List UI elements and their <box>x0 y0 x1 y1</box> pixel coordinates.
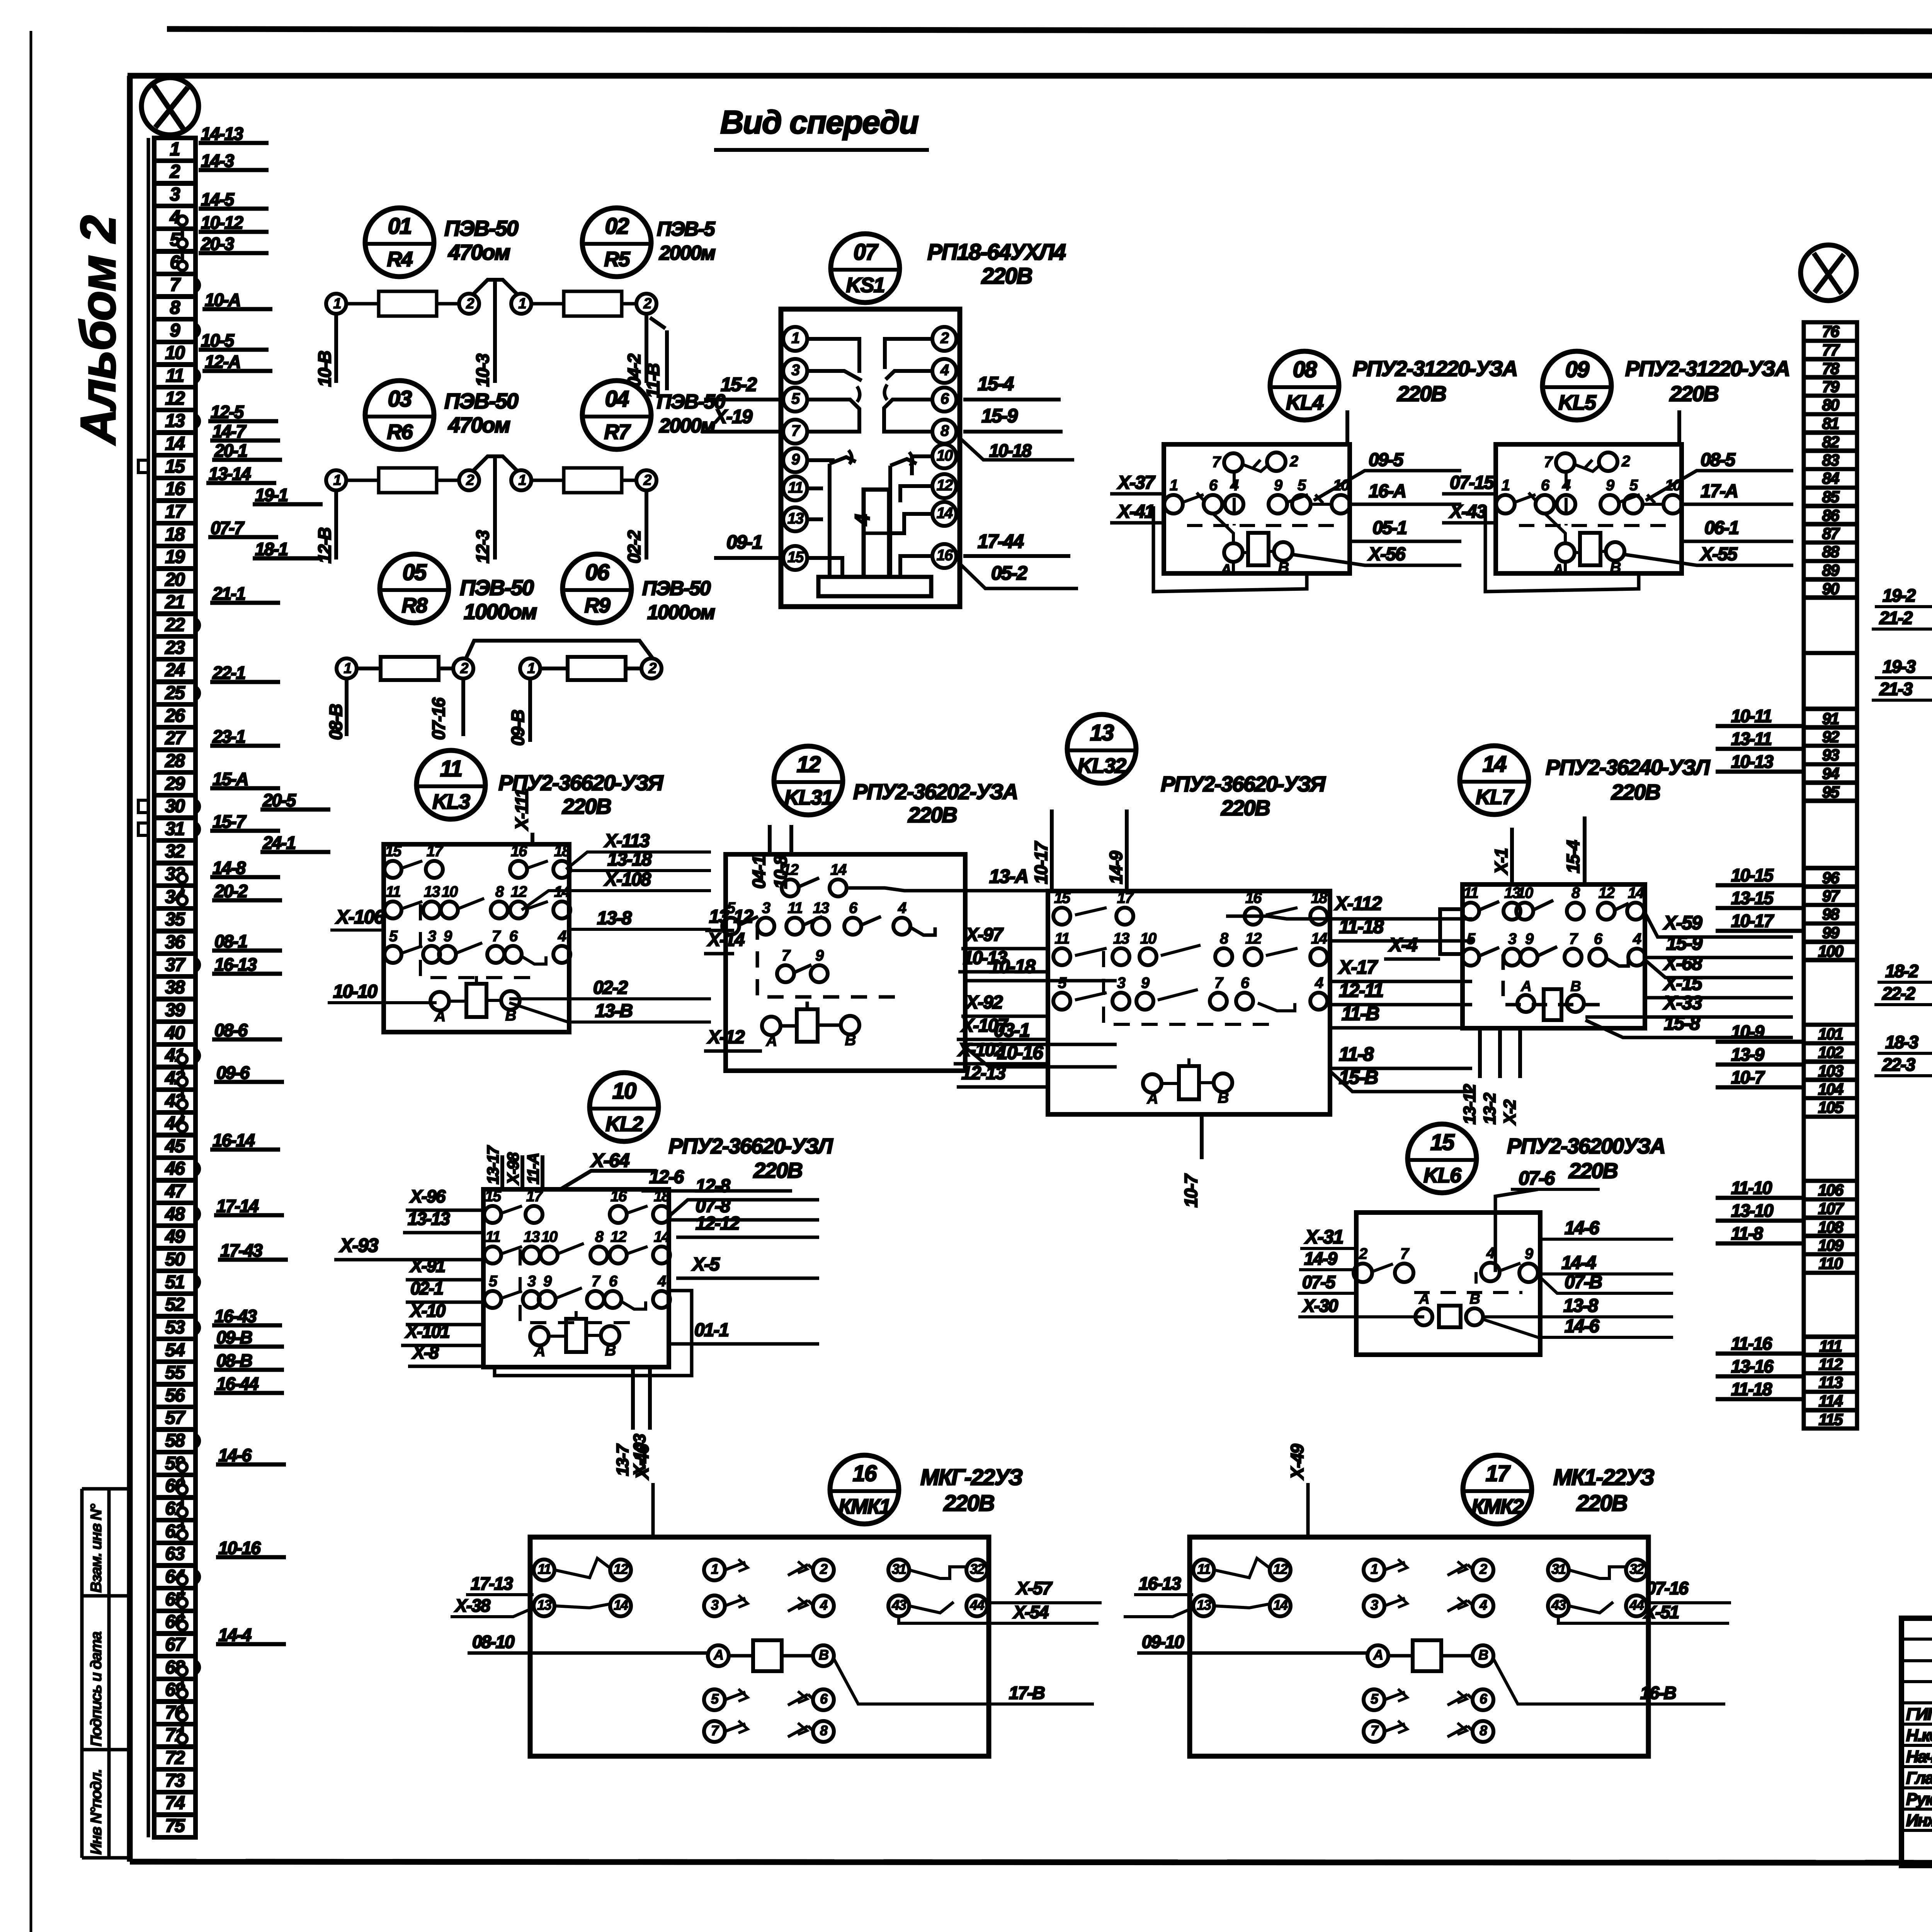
svg-text:X-64: X-64 <box>590 1150 629 1171</box>
svg-text:10-7: 10-7 <box>1181 1173 1201 1207</box>
svg-text:5: 5 <box>1629 477 1638 494</box>
svg-text:5: 5 <box>791 390 800 407</box>
svg-text:13: 13 <box>813 900 829 917</box>
svg-text:21: 21 <box>165 592 184 612</box>
svg-text:11: 11 <box>788 479 803 496</box>
svg-text:5: 5 <box>389 928 398 945</box>
svg-text:01: 01 <box>388 214 412 239</box>
svg-text:10-10: 10-10 <box>333 981 378 1002</box>
svg-text:ГИП: ГИП <box>1906 1705 1932 1724</box>
svg-text:10-А: 10-А <box>205 290 240 310</box>
svg-text:18: 18 <box>165 524 185 545</box>
svg-text:11-А: 11-А <box>524 1153 542 1184</box>
svg-text:16: 16 <box>1245 889 1262 906</box>
svg-text:11: 11 <box>1463 884 1478 901</box>
svg-text:А: А <box>1552 561 1563 578</box>
svg-text:18-2: 18-2 <box>1885 961 1918 981</box>
svg-text:KL7: KL7 <box>1476 786 1515 809</box>
svg-text:6: 6 <box>849 900 858 917</box>
svg-text:14-6: 14-6 <box>218 1445 252 1465</box>
terminal strip X left <box>147 138 150 1837</box>
svg-text:13-8: 13-8 <box>1563 1296 1598 1316</box>
relay KL3 dashed bus <box>420 904 534 978</box>
svg-text:3: 3 <box>170 184 180 205</box>
relay KL6 coil <box>1439 1306 1461 1327</box>
svg-text:А: А <box>766 1032 777 1049</box>
svg-text:15-4: 15-4 <box>978 373 1014 395</box>
svg-text:А: А <box>1418 1291 1429 1307</box>
relay KL7 pins row 2 <box>1462 949 1479 966</box>
svg-text:КМК2: КМК2 <box>1471 1495 1524 1518</box>
relay KL31 id circle 12 <box>774 746 843 815</box>
svg-text:7: 7 <box>711 1723 719 1738</box>
contactor KMK1 body <box>530 1537 989 1756</box>
relay KL2 coil <box>566 1319 586 1352</box>
svg-text:X-46: X-46 <box>632 1444 652 1480</box>
svg-text:X-57: X-57 <box>1015 1578 1053 1598</box>
svg-text:21-2: 21-2 <box>1879 608 1913 628</box>
svg-text:14-4: 14-4 <box>1561 1253 1596 1273</box>
svg-text:KL32: KL32 <box>1078 754 1126 777</box>
svg-text:1: 1 <box>527 660 535 677</box>
svg-text:X-91: X-91 <box>409 1256 445 1276</box>
svg-text:17-В: 17-В <box>1009 1683 1044 1703</box>
svg-text:12-8: 12-8 <box>696 1176 730 1196</box>
svg-text:18: 18 <box>1311 889 1328 906</box>
svg-text:X-15: X-15 <box>1663 973 1703 994</box>
svg-text:58: 58 <box>165 1430 185 1451</box>
svg-text:21-1: 21-1 <box>212 583 245 604</box>
svg-text:6: 6 <box>1594 930 1603 947</box>
relay KL5 body <box>1496 444 1682 573</box>
svg-text:X-41: X-41 <box>1117 502 1154 522</box>
svg-text:14-6: 14-6 <box>1565 1316 1599 1337</box>
resistor R6 id circle 03 <box>365 381 434 449</box>
svg-text:108: 108 <box>1818 1218 1844 1236</box>
svg-text:16-13: 16-13 <box>214 954 257 975</box>
svg-text:114: 114 <box>1819 1392 1843 1410</box>
svg-text:7: 7 <box>1400 1245 1410 1262</box>
svg-text:83: 83 <box>1822 451 1839 469</box>
svg-text:13-14: 13-14 <box>209 464 251 484</box>
svg-text:23: 23 <box>165 638 185 658</box>
svg-text:KL5: KL5 <box>1558 391 1597 414</box>
svg-text:R5: R5 <box>604 248 630 271</box>
svg-text:22-3: 22-3 <box>1882 1054 1915 1075</box>
relay KL4 coil <box>1248 533 1269 565</box>
relay KL32 top stubs <box>1050 810 1054 891</box>
relay KL2 stub X-64 <box>560 1171 657 1189</box>
resistor R5 id circle 02 <box>582 208 651 277</box>
svg-text:7: 7 <box>492 928 501 945</box>
svg-text:R7: R7 <box>604 420 631 444</box>
relay KL32 dashed bus <box>1104 951 1277 1024</box>
svg-text:13-12: 13-12 <box>1460 1084 1479 1124</box>
svg-text:09-В: 09-В <box>508 710 528 746</box>
contactor KMK2 id circle 17 <box>1463 1455 1532 1524</box>
relay KL2 pins middle row <box>484 1247 501 1264</box>
svg-text:13-В: 13-В <box>595 1001 632 1021</box>
svg-text:55: 55 <box>165 1362 185 1383</box>
svg-text:2: 2 <box>1621 453 1630 470</box>
svg-text:24-1: 24-1 <box>262 833 295 853</box>
svg-text:07-В: 07-В <box>1565 1272 1602 1293</box>
svg-text:10: 10 <box>442 883 458 900</box>
svg-text:08-В: 08-В <box>326 704 346 740</box>
svg-text:6: 6 <box>940 390 949 407</box>
contactor KMK1 coil <box>708 1645 729 1666</box>
relay KL3 id circle 11 <box>417 750 485 819</box>
jumper links left strip <box>181 221 184 266</box>
contactor KMK2 pins group 31 32 43 44 <box>1548 1560 1569 1580</box>
svg-text:11-18: 11-18 <box>1339 916 1384 937</box>
svg-text:X-2: X-2 <box>1500 1099 1519 1126</box>
svg-text:47: 47 <box>165 1181 186 1202</box>
svg-text:14-8: 14-8 <box>213 858 246 878</box>
relay KL7 entry box <box>1440 909 1463 954</box>
svg-text:77: 77 <box>1822 341 1840 359</box>
svg-text:04-1: 04-1 <box>749 856 769 889</box>
relay KL5 outer loop wire <box>1564 562 1567 572</box>
svg-text:12-11: 12-11 <box>1339 980 1383 1001</box>
svg-text:09-В: 09-В <box>216 1327 252 1347</box>
svg-text:470ом: 470ом <box>448 240 510 264</box>
svg-text:99: 99 <box>1822 923 1840 942</box>
svg-text:22: 22 <box>165 615 185 635</box>
svg-text:6: 6 <box>1241 975 1250 992</box>
frame top line A <box>167 29 1932 32</box>
svg-text:21-3: 21-3 <box>1879 679 1913 699</box>
svg-text:X-19: X-19 <box>713 406 753 427</box>
svg-text:220В: 220В <box>1611 780 1660 804</box>
svg-text:3: 3 <box>527 1273 536 1290</box>
svg-text:07: 07 <box>854 240 879 265</box>
svg-text:В: В <box>819 1647 828 1663</box>
svg-text:09-6: 09-6 <box>216 1063 250 1083</box>
svg-text:08-10: 08-10 <box>472 1632 515 1652</box>
svg-text:А: А <box>1147 1090 1158 1107</box>
svg-text:78: 78 <box>1822 359 1840 378</box>
svg-text:112: 112 <box>1819 1355 1843 1373</box>
svg-text:X-68: X-68 <box>1663 952 1702 974</box>
svg-text:1: 1 <box>1371 1561 1378 1577</box>
svg-text:14: 14 <box>1273 1597 1288 1613</box>
svg-text:1: 1 <box>518 296 526 312</box>
svg-text:12-6: 12-6 <box>649 1167 684 1187</box>
svg-text:14-5: 14-5 <box>201 189 235 209</box>
svg-text:17-14: 17-14 <box>216 1196 259 1216</box>
svg-text:1: 1 <box>333 296 341 312</box>
svg-text:9: 9 <box>1525 1245 1534 1262</box>
svg-text:15: 15 <box>385 843 402 860</box>
contactor KMK1 pins group 11-14 <box>534 1560 554 1580</box>
svg-text:6: 6 <box>1541 477 1550 494</box>
svg-text:07-15: 07-15 <box>1450 473 1495 493</box>
svg-text:Глав.спец: Глав.спец <box>1906 1769 1932 1787</box>
svg-text:17-А: 17-А <box>1701 481 1738 502</box>
svg-text:15-7: 15-7 <box>213 811 247 832</box>
svg-text:16: 16 <box>511 843 527 860</box>
svg-text:10-18: 10-18 <box>989 440 1032 461</box>
svg-text:75: 75 <box>165 1816 185 1836</box>
svg-text:16-44: 16-44 <box>216 1374 259 1394</box>
relay KL7 dashed bus <box>1503 954 1604 1005</box>
svg-text:84: 84 <box>1822 469 1839 487</box>
svg-text:KL2: KL2 <box>605 1112 643 1136</box>
svg-text:6: 6 <box>820 1691 828 1707</box>
svg-text:13: 13 <box>424 883 440 900</box>
svg-text:46: 46 <box>165 1158 185 1179</box>
svg-text:51: 51 <box>165 1272 184 1293</box>
svg-text:13: 13 <box>524 1228 540 1245</box>
relay KL32 pins middle row <box>1053 948 1070 965</box>
wire stub above KL4 <box>1345 410 1349 444</box>
svg-text:98: 98 <box>1822 905 1840 923</box>
svg-text:09-1: 09-1 <box>726 531 762 553</box>
svg-text:32: 32 <box>1629 1561 1644 1577</box>
svg-text:28: 28 <box>165 751 185 771</box>
svg-text:12: 12 <box>165 388 185 409</box>
svg-text:10-12: 10-12 <box>201 213 243 233</box>
svg-text:09: 09 <box>1565 357 1589 382</box>
svg-text:А: А <box>1220 561 1231 578</box>
relay KL3 coil <box>466 984 486 1017</box>
svg-text:РПУ2-31220-УЗА: РПУ2-31220-УЗА <box>1625 356 1789 381</box>
svg-text:2: 2 <box>940 330 949 347</box>
svg-text:08-5: 08-5 <box>1701 450 1736 470</box>
contactor KMK2 pins group 11-14 <box>1193 1560 1214 1580</box>
svg-text:15-4: 15-4 <box>1563 840 1583 873</box>
svg-text:9: 9 <box>791 451 800 468</box>
svg-text:74: 74 <box>165 1793 185 1813</box>
svg-text:МКГ-22УЗ: МКГ-22УЗ <box>920 1465 1023 1490</box>
svg-text:В: В <box>1218 1089 1229 1106</box>
svg-text:17: 17 <box>165 502 186 522</box>
svg-text:11-16: 11-16 <box>1731 1333 1772 1354</box>
svg-text:20-2: 20-2 <box>214 881 248 901</box>
svg-text:17: 17 <box>427 843 444 860</box>
tabs left strip <box>196 279 199 291</box>
svg-text:16: 16 <box>611 1188 627 1205</box>
svg-text:5: 5 <box>711 1691 719 1707</box>
svg-text:02-1: 02-1 <box>410 1278 443 1298</box>
svg-text:X-108: X-108 <box>604 869 651 890</box>
svg-text:7: 7 <box>592 1273 601 1290</box>
svg-text:44: 44 <box>1629 1597 1644 1613</box>
svg-text:11: 11 <box>485 1228 500 1245</box>
svg-text:X-5: X-5 <box>691 1254 720 1275</box>
svg-text:X-8: X-8 <box>412 1342 439 1362</box>
relay KL2 top stubs <box>500 1155 504 1189</box>
relay KL5 coil <box>1580 533 1600 565</box>
svg-text:9: 9 <box>1525 930 1534 947</box>
svg-text:РПУ2-31220-УЗА: РПУ2-31220-УЗА <box>1353 356 1517 381</box>
svg-text:44: 44 <box>969 1597 985 1613</box>
svg-text:2: 2 <box>1359 1245 1367 1262</box>
svg-text:4: 4 <box>940 362 949 379</box>
svg-text:15: 15 <box>1430 1130 1455 1155</box>
left tabs strip <box>138 460 148 473</box>
title block change rows <box>1901 1638 1932 1641</box>
relay KL31 top stubs <box>768 825 772 854</box>
svg-text:09-5: 09-5 <box>1369 450 1404 470</box>
svg-text:А: А <box>534 1343 545 1360</box>
relay KL4 outer loop wire <box>1232 562 1235 572</box>
svg-text:105: 105 <box>1818 1098 1844 1116</box>
svg-text:В: В <box>845 1032 856 1049</box>
svg-text:14-13: 14-13 <box>201 124 243 144</box>
svg-text:115: 115 <box>1819 1410 1844 1429</box>
svg-text:X-112: X-112 <box>1334 893 1382 914</box>
svg-text:8: 8 <box>1571 884 1580 901</box>
frame top line B <box>128 73 1932 79</box>
svg-text:9: 9 <box>170 320 180 341</box>
svg-text:94: 94 <box>1822 764 1839 782</box>
svg-text:11: 11 <box>166 366 184 386</box>
wire stub 08-В <box>345 679 349 736</box>
svg-text:12: 12 <box>1599 884 1615 901</box>
svg-text:X-102: X-102 <box>957 1040 1005 1060</box>
svg-text:6: 6 <box>1209 477 1218 494</box>
svg-text:45: 45 <box>165 1136 185 1156</box>
svg-text:4: 4 <box>898 900 906 917</box>
svg-text:X-4: X-4 <box>1388 934 1417 956</box>
svg-text:7: 7 <box>1371 1723 1379 1738</box>
svg-text:87: 87 <box>1822 524 1840 543</box>
svg-text:09-10: 09-10 <box>1142 1632 1184 1652</box>
contactor KMK2 pins group 1-4 <box>1364 1560 1384 1580</box>
svg-text:А: А <box>434 1008 445 1025</box>
contactor KMK2 body <box>1190 1537 1648 1756</box>
wire stub 09-В <box>528 679 532 742</box>
svg-text:18-3: 18-3 <box>1885 1032 1918 1052</box>
svg-text:02: 02 <box>605 214 629 239</box>
relay KS1 pins left column <box>783 327 807 351</box>
svg-text:11: 11 <box>537 1561 551 1577</box>
svg-text:85: 85 <box>1822 488 1840 506</box>
svg-text:X-51: X-51 <box>1643 1602 1679 1622</box>
svg-text:13-А: 13-А <box>989 866 1028 887</box>
relay KL3 pins top row <box>384 861 401 878</box>
svg-text:РП18-64УХЛ4: РП18-64УХЛ4 <box>927 240 1066 265</box>
svg-text:7: 7 <box>791 422 801 439</box>
svg-text:52: 52 <box>165 1294 185 1315</box>
svg-text:11: 11 <box>1197 1561 1210 1577</box>
svg-text:01-1: 01-1 <box>694 1320 728 1340</box>
relay KL6 body <box>1356 1213 1540 1355</box>
svg-text:1: 1 <box>1502 477 1510 494</box>
svg-text:1: 1 <box>333 472 341 488</box>
svg-text:10-13: 10-13 <box>1731 752 1774 772</box>
resistor R9 id circle 06 <box>563 554 631 623</box>
relay KL2 id circle 10 <box>590 1073 658 1141</box>
svg-text:12: 12 <box>937 477 953 494</box>
svg-text:12-3: 12-3 <box>473 530 493 563</box>
relay KS1 body <box>781 309 960 607</box>
svg-text:X-10: X-10 <box>409 1301 446 1321</box>
svg-text:А: А <box>1520 978 1531 995</box>
svg-text:06: 06 <box>585 560 610 585</box>
svg-text:37: 37 <box>165 955 186 975</box>
svg-text:Альбом 2: Альбом 2 <box>71 216 126 446</box>
svg-text:16: 16 <box>165 479 185 499</box>
relay KL3 body <box>384 844 569 1032</box>
relay KS1 id circle 07 <box>831 234 900 303</box>
svg-text:14-4: 14-4 <box>218 1625 251 1645</box>
svg-text:08-1: 08-1 <box>214 931 247 951</box>
svg-text:10-5: 10-5 <box>201 330 235 350</box>
svg-text:220В: 220В <box>1221 796 1270 820</box>
svg-text:80: 80 <box>1822 396 1839 414</box>
svg-text:9: 9 <box>815 947 824 964</box>
svg-text:27: 27 <box>165 728 186 748</box>
svg-text:07-16: 07-16 <box>429 697 449 740</box>
svg-text:92: 92 <box>1822 728 1839 746</box>
relay KL2 pins bottom row <box>484 1291 501 1308</box>
svg-text:12-В: 12-В <box>315 528 335 563</box>
relay KS1 internal contacts top <box>807 339 859 373</box>
svg-text:16: 16 <box>853 1461 877 1486</box>
svg-text:17: 17 <box>1486 1461 1511 1486</box>
svg-text:14: 14 <box>654 1228 670 1245</box>
svg-text:14-9: 14-9 <box>1304 1248 1337 1269</box>
svg-text:101: 101 <box>1818 1025 1843 1043</box>
svg-text:2: 2 <box>643 472 651 488</box>
relay KL5 id circle 09 <box>1543 351 1611 420</box>
svg-text:8: 8 <box>1480 1723 1487 1738</box>
svg-text:79: 79 <box>1822 378 1840 396</box>
svg-text:6: 6 <box>609 1273 618 1290</box>
relay KL7 coil <box>1544 989 1561 1020</box>
relay KL6 id circle 15 <box>1408 1124 1476 1193</box>
relay KS1 mechanism <box>828 464 832 577</box>
svg-text:220В: 220В <box>1669 381 1718 406</box>
svg-text:X-37: X-37 <box>1117 473 1156 493</box>
contactor KMK1 pins group 1-4 <box>704 1560 725 1580</box>
svg-text:Нач. отд: Нач. отд <box>1906 1747 1932 1766</box>
svg-text:10: 10 <box>1140 930 1156 947</box>
svg-text:X-113: X-113 <box>604 831 650 851</box>
svg-text:9: 9 <box>1141 975 1150 992</box>
svg-text:1000ом: 1000ом <box>464 599 537 624</box>
svg-text:14: 14 <box>937 505 953 522</box>
relay KL7 pins row 1 <box>1462 903 1479 920</box>
svg-text:11-В: 11-В <box>1342 1003 1379 1024</box>
svg-text:97: 97 <box>1822 887 1840 905</box>
svg-text:X-12: X-12 <box>707 1027 745 1048</box>
svg-text:16-14: 16-14 <box>213 1130 255 1150</box>
svg-text:06-1: 06-1 <box>1704 518 1738 538</box>
svg-text:РПУ2-36200УЗА: РПУ2-36200УЗА <box>1507 1134 1665 1158</box>
svg-text:X-101: X-101 <box>405 1321 449 1342</box>
svg-text:08: 08 <box>1293 357 1317 382</box>
svg-text:9: 9 <box>444 928 452 945</box>
svg-text:470ом: 470ом <box>448 413 510 437</box>
svg-text:39: 39 <box>165 1000 185 1020</box>
svg-text:1: 1 <box>711 1561 718 1577</box>
svg-text:X-49: X-49 <box>1287 1444 1307 1480</box>
svg-text:16: 16 <box>937 547 953 564</box>
left margin stamp column <box>80 1489 84 1858</box>
svg-text:73: 73 <box>165 1770 185 1791</box>
relay KL5 dashed link <box>1565 471 1568 526</box>
svg-text:14: 14 <box>1628 884 1644 901</box>
svg-text:3: 3 <box>762 900 770 917</box>
svg-text:2000м: 2000м <box>659 242 716 264</box>
svg-text:20-5: 20-5 <box>262 790 296 810</box>
svg-text:22-1: 22-1 <box>212 663 245 683</box>
resistor R7 id circle 04 <box>582 381 651 449</box>
